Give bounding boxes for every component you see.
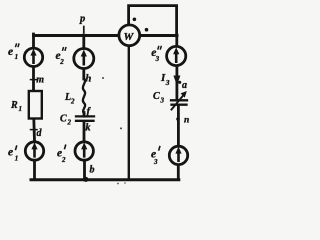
wire e1' to bottom (33, 161, 36, 179)
source e1' arrow (33, 148, 36, 158)
svg-text:p: p (79, 14, 85, 25)
svg-text:a: a (182, 80, 187, 91)
svg-text:2: 2 (61, 156, 66, 164)
source e3'' arrow (175, 53, 178, 63)
current I3 arrowhead (173, 76, 180, 86)
svg-text:R: R (10, 100, 18, 111)
wire e1''-R1 (node m) (32, 67, 35, 91)
node p tick (83, 27, 85, 33)
wire R1-e1' (node d) (32, 119, 36, 142)
source e3'' circle (167, 46, 186, 65)
svg-text:C: C (60, 114, 67, 125)
inductor L2 (83, 79, 85, 114)
source e1'' circle (24, 48, 42, 66)
wire L2-C2 (node f) (83, 113, 86, 117)
wire e3''-C3 (current I3, node a) (175, 67, 178, 101)
svg-text:1: 1 (19, 105, 23, 113)
source e2' arrow (83, 148, 86, 158)
wire right branch to e3'' (175, 35, 178, 46)
source e2'' arrow (83, 55, 86, 66)
svg-text:m: m (36, 75, 44, 86)
label e1'' (8, 43, 19, 61)
svg-text:2: 2 (67, 119, 72, 127)
wattmeter voltage coil loop (129, 6, 177, 34)
wire C3-e3' (node n) (177, 105, 180, 146)
node d tick (31, 129, 38, 131)
source e3' circle (169, 146, 187, 164)
wire e2' to bottom (node b) (83, 161, 86, 179)
source e1' circle (25, 142, 43, 160)
svg-text:3: 3 (153, 158, 158, 166)
wire top bus (34, 34, 178, 37)
label C2 (60, 114, 72, 127)
label R1 (10, 100, 22, 113)
svg-text:k: k (86, 123, 91, 134)
source e3' arrow (177, 152, 180, 162)
source e2' circle (75, 142, 93, 160)
svg-text:3: 3 (165, 78, 170, 87)
capacitor C3 variable arrow (172, 95, 185, 110)
wire branch2 top (node p) (82, 35, 85, 48)
speck noise (102, 77, 104, 79)
svg-text:e: e (8, 147, 13, 159)
svg-text:3: 3 (160, 97, 165, 105)
wattmeter dot mark 1 (133, 18, 137, 22)
node n dot (176, 117, 180, 121)
node m tick (31, 79, 38, 81)
wire wattmeter to bottom bus (128, 46, 130, 179)
svg-text:b: b (90, 165, 95, 176)
node a dot (178, 81, 181, 84)
capacitor C3 plate top (171, 99, 187, 101)
svg-text:3: 3 (155, 55, 160, 63)
wire e3' to bottom (177, 165, 180, 179)
wire bottom bus (31, 178, 179, 181)
label e2' (57, 145, 66, 165)
svg-text:C: C (153, 91, 160, 102)
svg-text:W: W (124, 31, 135, 43)
source e1'' arrow (32, 54, 35, 64)
label C3 (153, 91, 165, 105)
node b junction dot (83, 177, 88, 182)
resistor R1 (29, 91, 42, 119)
svg-text:e: e (8, 46, 13, 58)
wattmeter W (119, 25, 140, 46)
label e3'' (151, 46, 161, 63)
wire left branch top corner (32, 34, 35, 48)
capacitor C3 plate bottom (172, 104, 187, 106)
capacitor C2 plate top (76, 115, 94, 117)
source e2'' circle (74, 49, 94, 69)
label e3' (151, 146, 160, 166)
wire C2-e2' (node k) (83, 122, 86, 141)
wire e2''-L2 (node h) (82, 69, 85, 79)
wattmeter dot mark 2 (145, 28, 149, 32)
label I3 (160, 72, 170, 87)
C3 arrow head (181, 91, 187, 98)
capacitor C2 plate bottom (76, 120, 94, 122)
svg-text:1: 1 (15, 53, 19, 61)
label e2'' (56, 47, 67, 66)
svg-text:2: 2 (59, 58, 64, 66)
svg-text:n: n (184, 116, 189, 126)
svg-text:h: h (86, 74, 92, 85)
label L2 (64, 92, 75, 106)
label e1' (8, 145, 18, 162)
svg-text:1: 1 (15, 155, 19, 163)
svg-text:2: 2 (70, 98, 75, 106)
